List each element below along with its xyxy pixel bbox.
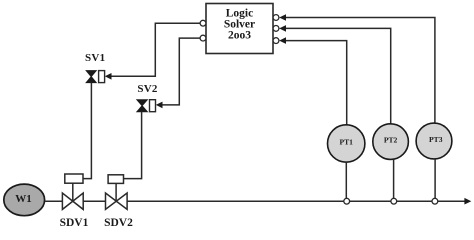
node C junction [432,198,438,204]
node B junction [391,198,397,204]
svg-text:SDV2: SDV2 [104,217,133,229]
logic solver U1 box [206,4,273,54]
wire from PT3 down to pipe node C [434,158,436,198]
output port O2 [200,35,206,41]
svg-text:PT3: PT3 [429,135,443,144]
wire from I3 to PT1 [286,41,347,125]
svg-text:PT1: PT1 [339,138,353,147]
svg-text:SV2: SV2 [137,83,157,95]
arrowhead into I1 [279,14,286,21]
label SDV2 [104,217,133,229]
shutdown valve SDV1 body [62,193,83,209]
arrowhead into SV1 solenoid [105,73,112,80]
wire from O2 to SV2 solenoid [162,38,201,105]
pressure transmitter PT3 [416,123,452,159]
label SV2 [137,83,157,95]
shutdown valve SDV1 actuator box [65,174,83,183]
stem SDV1 [72,183,74,201]
arrowhead into I2 [279,25,286,32]
pipe between SDV1 and SDV2 [83,200,105,202]
input port I3 [273,38,279,44]
svg-text:W1: W1 [15,193,32,205]
well W1 [4,184,45,216]
node A junction [344,198,350,204]
wire from I2 to PT2 [286,28,391,124]
svg-text:2oo3: 2oo3 [228,29,251,41]
svg-text:SV1: SV1 [85,52,105,64]
shutdown valve SDV2 body [106,193,128,209]
wire from SV2 to SDV2 actuator [124,112,142,179]
pipe outlet arrowhead [464,198,471,205]
wire from SV1 to SDV1 actuator [83,83,91,179]
svg-text:Logic: Logic [226,7,253,19]
label SV1 [85,52,105,64]
wire from PT1 down to pipe node A [345,162,347,198]
svg-text:PT2: PT2 [384,136,398,145]
input port I2 [273,26,279,32]
input port I1 [273,15,279,21]
pipe from SDV2 to outlet [127,200,466,202]
svg-text:SDV1: SDV1 [60,217,89,229]
arrowhead into I3 [279,37,286,44]
solenoid valve SV1 actuator box [99,71,105,83]
label SDV1 [60,217,89,229]
pipe from W1 to SDV1 [45,200,63,202]
pressure transmitter PT2 [373,124,409,160]
pressure transmitter PT1 [328,125,365,162]
wire from O1 to SV1 solenoid [111,23,201,76]
stem SDV2 [115,183,117,201]
wire from PT2 down to pipe node B [393,159,395,198]
solenoid valve SV1 body [86,71,96,83]
solenoid valve SV2 actuator box [150,100,156,112]
output port O1 [200,20,206,26]
solenoid valve SV2 body [137,100,147,112]
wire from I1 to PT3 [286,18,435,124]
shutdown valve SDV2 actuator box [108,175,123,184]
arrowhead into SV2 solenoid [156,102,163,109]
